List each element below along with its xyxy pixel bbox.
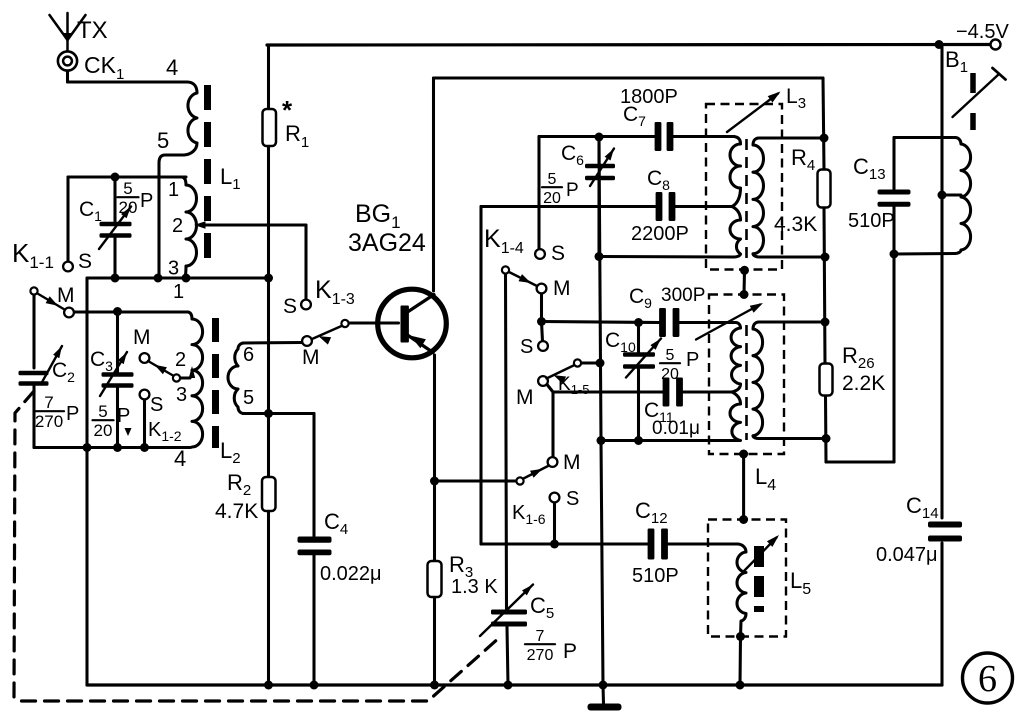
wire: C12 node y=544	[481, 542, 648, 545]
resistor R4 4.3K	[818, 170, 831, 208]
wire: C13 loop top	[894, 136, 955, 139]
wire: R2 line	[267, 414, 270, 478]
wire: C3 branch vertical	[116, 312, 119, 373]
L4 core dashed line	[745, 325, 748, 440]
wire: corner to C13 branch riser	[826, 460, 894, 463]
svg-text:P: P	[563, 640, 577, 663]
svg-text:5: 5	[157, 128, 169, 153]
wire: collector top horizontal to L3	[434, 76, 824, 79]
supply terminal -4.5V	[991, 40, 1001, 50]
svg-text:S: S	[78, 250, 92, 273]
svg-text:M: M	[133, 326, 151, 349]
svg-text:TX: TX	[77, 17, 108, 44]
node: -4.5V junction	[935, 40, 944, 49]
svg-text:2: 2	[175, 349, 186, 371]
wire: collector riser	[432, 78, 435, 291]
svg-text:M: M	[516, 386, 534, 409]
node: L4/L5 link ends	[739, 450, 748, 459]
svg-text:20: 20	[94, 421, 113, 440]
capacitor C2 (variable 7/270P)	[19, 371, 49, 376]
svg-text:5: 5	[548, 171, 557, 188]
svg-text:S: S	[520, 336, 533, 358]
wire: C13 branch	[892, 138, 895, 190]
wire: K1-5 S stub	[542, 322, 543, 342]
wire: emitter drop	[433, 355, 436, 561]
svg-text:M: M	[302, 346, 320, 369]
svg-text:S: S	[150, 394, 163, 416]
node: L4 secondary top	[821, 318, 830, 327]
ground symbol	[588, 704, 622, 711]
wire: L3 primary bottom y=256.5	[599, 255, 734, 259]
svg-text:S: S	[566, 488, 579, 510]
wire: C11 node y=392	[553, 390, 663, 393]
transformer L4 primary winding	[731, 323, 740, 393]
node: C10 top	[634, 318, 643, 327]
connector CK1	[58, 51, 77, 70]
svg-text:2.2K: 2.2K	[842, 372, 885, 395]
svg-text:270: 270	[527, 647, 554, 664]
wire: K1-4 pivot / C5 vertical	[506, 274, 507, 609]
wire: K1-4 S riser / C6-C7 node y=136.5	[537, 137, 540, 250]
wire: R1 bias line vertical (top rail to base node)	[267, 45, 270, 109]
transformer L3 secondary winding	[753, 138, 825, 257]
capacitor C6 (trimmer 5/20P)	[585, 164, 615, 169]
svg-text:300P: 300P	[661, 285, 705, 306]
svg-text:1: 1	[168, 179, 179, 201]
wire: C2 bottom to cell bus	[32, 386, 35, 448]
svg-text:3: 3	[176, 384, 187, 406]
wire: ground symbol stem	[601, 685, 605, 704]
wire: K1-5 M corner to K1-6 M	[547, 385, 553, 393]
node: L3 secondary top	[820, 134, 829, 143]
svg-text:S: S	[551, 242, 565, 265]
svg-text:P: P	[566, 180, 579, 201]
transformer L1 top winding (4-5)	[187, 82, 197, 143]
wire: C1 branch vertical	[113, 177, 116, 222]
svg-text:1: 1	[173, 281, 184, 303]
svg-text:5: 5	[123, 179, 132, 198]
svg-text:M: M	[553, 277, 571, 300]
coil B1 output winding	[955, 138, 971, 254]
wire: C9 node y=322.5	[542, 322, 660, 323]
wire: K1-1 pivot to C2	[32, 296, 35, 369]
capacitor C8 2200P	[656, 192, 663, 221]
svg-text:5: 5	[243, 387, 254, 409]
svg-text:0.022μ: 0.022μ	[320, 563, 382, 585]
svg-text:−4.5V: −4.5V	[956, 21, 1009, 43]
wire: emitter to K1-6 pivot	[435, 479, 516, 482]
node: C6 bottom	[595, 252, 604, 261]
svg-text:M: M	[57, 284, 75, 307]
node: K1-6 S junction	[550, 540, 559, 549]
L3 tuning arrow	[727, 94, 778, 133]
wire: K1-5 pivot to mixer line	[581, 361, 600, 364]
L4 tuning arrow	[696, 305, 760, 340]
transistor BG1 3AG24	[378, 289, 447, 358]
switch K1-6	[516, 477, 523, 484]
transformer L3 primary winding	[730, 137, 741, 207]
wire: K1-2 pivot to L2 tap3	[180, 376, 190, 379]
L2 ferrite core (dashed bar)	[212, 318, 219, 448]
wire: L4-L5 link	[742, 454, 745, 520]
wire: K1-1 M to L2 top	[74, 310, 189, 313]
node: C6 top	[595, 133, 604, 142]
svg-text:6: 6	[978, 658, 997, 700]
svg-text:0.047μ: 0.047μ	[876, 544, 938, 566]
svg-text:P: P	[117, 405, 130, 427]
wire: base bus y=278 (L1 sec bottom)	[87, 276, 269, 279]
svg-text:P: P	[140, 190, 153, 212]
wire: C13 loop bottom	[894, 252, 955, 256]
transformer L2 secondary winding (6-5)	[228, 343, 244, 414]
node: C13 bottom	[890, 250, 899, 259]
resistor R3 1.3K	[428, 561, 442, 597]
capacitor C13 510P	[878, 190, 911, 195]
node: B1 tap	[938, 191, 947, 200]
svg-text:6: 6	[243, 344, 254, 366]
svg-text:2: 2	[172, 215, 183, 237]
L2 tap 3 arrow	[189, 366, 195, 378]
transformer L3 dashed box	[706, 104, 782, 270]
svg-text:0.01μ: 0.01μ	[652, 418, 700, 439]
node: cell bottom dots	[83, 443, 92, 452]
node: base node / L2 bottom	[264, 409, 273, 418]
wire: left vertical x=87	[85, 278, 88, 685]
wire: K1-4 M drop	[540, 293, 543, 322]
svg-text:20: 20	[543, 190, 561, 207]
transformer L4 secondary winding	[753, 322, 826, 439]
svg-text:20: 20	[119, 198, 138, 217]
wire: C10 branch vertical	[637, 323, 640, 353]
node: K1-1 M / C3 top	[113, 307, 122, 316]
wire: L4 primary bottom y=440.5	[601, 439, 735, 442]
wire: L2 sec "5" bottom to C4	[243, 412, 314, 415]
node: C1 top	[111, 173, 120, 182]
node: L4 secondary bottom	[822, 434, 831, 443]
C3 P pointer	[125, 428, 132, 436]
wire: K1-6 S drop	[553, 502, 556, 544]
L5 ferrite core (dashed bar)	[754, 546, 764, 612]
node: base bus dots	[111, 274, 120, 283]
svg-text:4: 4	[166, 55, 178, 80]
wire: right vertical x=824 (L3/L4 secondary / R4 / R26 chain)	[823, 78, 824, 170]
node: L5 bottom	[736, 632, 745, 641]
wire: L1 tap2 to K1-3 S	[200, 223, 306, 226]
wire: tuned cell bottom bus y=447.5	[34, 446, 190, 449]
transformer L2 primary winding (1-2-3-4)	[188, 312, 203, 448]
node: K1-4 M junction	[537, 317, 546, 326]
capacitor C3 (trimmer 5/20)	[102, 372, 134, 377]
capacitor C12 510P	[648, 529, 655, 560]
node: emitter junction	[430, 477, 439, 486]
L1 ferrite core (dashed bar)	[204, 85, 211, 270]
svg-text:7: 7	[44, 393, 53, 412]
node: K1-5 pivot junction	[596, 359, 605, 368]
transformer L1 lower winding (1-2-3)	[182, 177, 197, 278]
svg-text:4.7K: 4.7K	[215, 500, 258, 523]
wire: C8 node y=206.5	[481, 205, 656, 208]
wire: K1-1 S riser	[66, 177, 69, 262]
L3 core dashed line	[745, 139, 748, 258]
node: ground bus dots	[264, 681, 273, 690]
wire: C4 bottom	[312, 553, 315, 686]
node: C10 bottom	[634, 436, 643, 445]
wire: antenna lead	[66, 71, 69, 83]
svg-text:P: P	[66, 403, 79, 425]
capacitor C10 (trimmer 5/20P)	[623, 352, 655, 357]
svg-text:7: 7	[536, 628, 545, 645]
wire: C1 top node y=177	[68, 175, 186, 178]
capacitor C9 300P	[659, 308, 666, 337]
wire: long vertical x=600 (osc line to ground)	[599, 137, 601, 441]
wire: K1-3 pivot to base	[349, 321, 399, 324]
capacitor C14 0.047u	[928, 522, 962, 528]
svg-text:270: 270	[35, 412, 63, 431]
svg-text:3AG24: 3AG24	[348, 229, 426, 257]
wire: L3-L4 coupling link	[742, 270, 746, 294]
svg-text:4: 4	[174, 446, 186, 471]
capacitor C7 1800P	[655, 122, 662, 151]
wire: K1-2 S drop	[143, 399, 146, 448]
capacitor C5 (variable 7/270P)	[491, 610, 527, 615]
dashed gang link C2-C5	[14, 391, 500, 701]
wire: B1 coil tap	[942, 193, 961, 196]
transformer L4 dashed box	[709, 295, 784, 455]
node: L3 secondary bottom	[821, 253, 830, 262]
wire: L5 bottom lead	[738, 637, 742, 686]
capacitor C1 (trimmer 5/20P)	[100, 222, 132, 227]
coil L5 dashed box	[708, 520, 786, 637]
capacitor C11 0.01u	[663, 378, 670, 407]
svg-text:M: M	[563, 451, 581, 474]
wire: C6 branch vertical	[597, 137, 600, 164]
resistor R2	[262, 477, 276, 511]
L5 tuning arrow	[744, 538, 777, 572]
svg-text:4.3K: 4.3K	[774, 213, 817, 236]
wire: L2 sec "6" to K1-3 M	[243, 341, 302, 345]
page marker 6	[963, 653, 1013, 703]
coil L5 winding	[737, 544, 746, 637]
node: L3/L4 link ends	[740, 266, 749, 275]
node: osc line/L4 bottom	[597, 436, 606, 445]
svg-text:3: 3	[168, 258, 179, 280]
svg-text:510P: 510P	[632, 565, 679, 587]
svg-text:S: S	[283, 295, 297, 318]
wire: -4.5V top supply rail	[267, 43, 990, 47]
resistor R26 2.2K	[820, 364, 833, 396]
svg-text:5: 5	[666, 347, 675, 364]
wire: battery/output vertical x=942	[940, 45, 943, 519]
svg-text:1.3 K: 1.3 K	[451, 576, 498, 598]
wire: x=481 vertical (C8 node to C12 node)	[479, 207, 482, 545]
resistor R1	[263, 109, 277, 146]
antenna TX	[66, 13, 69, 51]
wire: bottom ground bus	[87, 683, 942, 686]
wire: L1 "5" tap down lead	[159, 143, 197, 278]
switch K1-5	[538, 376, 548, 386]
capacitor C4 0.022u	[298, 537, 332, 543]
svg-text:2200P: 2200P	[631, 223, 689, 245]
svg-text:510P: 510P	[848, 210, 895, 232]
L1 tap 2 arrow	[194, 221, 206, 229]
svg-text:P: P	[686, 349, 699, 371]
svg-text:5: 5	[98, 402, 107, 421]
